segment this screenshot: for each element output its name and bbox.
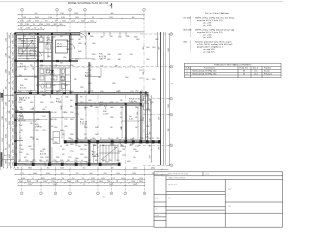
- svg-text:900: 900: [102, 145, 105, 147]
- svg-text:5400: 5400: [95, 107, 99, 109]
- svg-text:3600: 3600: [64, 85, 68, 87]
- svg-text:1050: 1050: [146, 47, 150, 49]
- svg-text:2490: 2490: [19, 125, 23, 127]
- svg-text:Lb. Ar.: Lb. Ar.: [185, 67, 191, 70]
- svg-text:615: 615: [62, 149, 65, 151]
- svg-text:1200: 1200: [156, 138, 160, 140]
- svg-text:900: 900: [13, 143, 15, 146]
- svg-text:3600: 3600: [90, 36, 94, 38]
- bottom dimension line row 5: [17, 184, 145, 186]
- svg-text:A: 8.20: A: 8.20: [40, 152, 46, 155]
- svg-text:1200: 1200: [6, 53, 8, 57]
- svg-text:POMB QUOTY KEYO HAMUOLJ ZHUKHE: POMB QUOTY KEYO HAMUOLJ ZHUKHETO: [214, 63, 252, 66]
- svg-text:1180: 1180: [36, 85, 39, 87]
- svg-text:90: 90: [108, 138, 110, 140]
- svg-text:90: 90: [81, 160, 83, 162]
- svg-text:17: 17: [32, 178, 34, 180]
- svg-text:1140: 1140: [143, 72, 145, 75]
- bathroom fixtures: [40, 69, 66, 89]
- grid leader line 7: [143, 11, 145, 34]
- svg-text:1050: 1050: [80, 102, 84, 104]
- svg-text:Pozty, mm: Pozty, mm: [240, 67, 249, 70]
- small fixtures upper-left: [19, 38, 51, 56]
- svg-text:5400: 5400: [30, 102, 34, 104]
- staircase treads (top-left): [18, 38, 36, 59]
- svg-text:17: 17: [92, 150, 94, 152]
- dark door blobs: [29, 60, 66, 94]
- svg-text:KO 4200: KO 4200: [184, 17, 191, 19]
- svg-text:1180: 1180: [100, 37, 103, 39]
- svg-text:T•: T•: [171, 84, 173, 86]
- svg-text:140: 140: [98, 77, 101, 79]
- stair direction arrow: [20, 40, 33, 57]
- interior wall vertical C: [69, 33, 71, 62]
- svg-text:2490: 2490: [118, 54, 122, 56]
- svg-text:1980: 1980: [126, 36, 130, 38]
- svg-text:1140: 1140: [6, 118, 8, 122]
- svg-text:720: 720: [6, 87, 8, 90]
- svg-text:140: 140: [54, 112, 57, 114]
- title block small texts: [156, 173, 233, 218]
- right vertical dimension line: [168, 33, 170, 166]
- svg-text:1775: 1775: [111, 178, 115, 180]
- svg-text:2: 2: [57, 9, 58, 11]
- grid leader line 4 (bottom): [69, 167, 71, 192]
- svg-text:90: 90: [13, 47, 15, 49]
- svg-text:17: 17: [100, 138, 102, 140]
- svg-text:615: 615: [46, 160, 49, 162]
- svg-text:1980: 1980: [42, 149, 46, 151]
- svg-text:5400: 5400: [56, 91, 60, 93]
- svg-text:1: 1: [187, 71, 188, 73]
- svg-text:615: 615: [80, 97, 83, 99]
- svg-text:250: 250: [120, 100, 123, 102]
- svg-text:17: 17: [22, 51, 24, 53]
- svg-text:2400: 2400: [13, 114, 15, 118]
- svg-text:2400: 2400: [13, 100, 15, 104]
- svg-text:250: 250: [104, 173, 107, 175]
- svg-text:880: 880: [150, 109, 152, 112]
- top wall fill: [15, 33, 80, 34]
- svg-text:90: 90: [6, 148, 8, 150]
- svg-text:3600: 3600: [19, 181, 23, 183]
- svg-text:1200: 1200: [50, 139, 54, 141]
- svg-text:4240: 4240: [61, 17, 65, 19]
- svg-text:1775: 1775: [122, 155, 126, 157]
- svg-text:4240: 4240: [9, 154, 11, 158]
- right wall strip dark line: [160, 32, 162, 165]
- svg-text:720: 720: [55, 21, 58, 23]
- svg-text:1200: 1200: [129, 145, 133, 147]
- svg-text:36: 36: [243, 73, 245, 75]
- svg-text:6: 6: [111, 193, 112, 195]
- svg-text:4240: 4240: [28, 91, 32, 93]
- left page scan edge: [0, 92, 2, 170]
- grid bubble F (right): [170, 164, 173, 167]
- svg-text:365: 365: [132, 138, 135, 140]
- outer wall left: [14, 33, 16, 165]
- svg-text:5400: 5400: [28, 146, 32, 148]
- svg-text:1180: 1180: [25, 24, 29, 26]
- svg-text:1775: 1775: [64, 119, 68, 121]
- svg-text:1140: 1140: [42, 109, 45, 111]
- svg-text:90: 90: [9, 82, 11, 84]
- svg-text:12,4: 12,4: [254, 73, 258, 75]
- svg-text:4: 4: [85, 9, 86, 11]
- grid leader line 3: [69, 11, 71, 34]
- outer wall right of main block: [140, 92, 142, 143]
- svg-text:2285: 2285: [28, 184, 32, 186]
- svg-text:MODEL W DASWAL PLAN NO 1:50: MODEL W DASWAL PLAN NO 1:50: [68, 2, 109, 5]
- svg-text:2760: 2760: [118, 37, 122, 39]
- section marker left A: [0, 93, 14, 98]
- grid bubble 8 (bottom): [143, 192, 146, 195]
- svg-text:2490: 2490: [70, 134, 74, 136]
- svg-text:2490: 2490: [159, 146, 161, 150]
- svg-text:5400: 5400: [116, 91, 120, 93]
- svg-text:2760: 2760: [52, 85, 56, 87]
- svg-text:1140: 1140: [107, 54, 110, 56]
- top dimension line row 3: [17, 21, 96, 23]
- svg-text:140: 140: [150, 145, 152, 148]
- door swing box lower-left: [53, 132, 60, 144]
- svg-text:140: 140: [111, 168, 114, 170]
- svg-text:BK2: BK2: [184, 41, 188, 43]
- svg-text:1775: 1775: [36, 126, 40, 128]
- svg-text:± 0.00: ± 0.00: [103, 113, 108, 115]
- svg-text:1: 1: [22, 9, 23, 11]
- svg-text:365: 365: [75, 145, 78, 147]
- svg-text:250: 250: [35, 13, 38, 15]
- svg-text:900: 900: [33, 67, 35, 70]
- svg-text:2490: 2490: [18, 102, 22, 104]
- page border top: [0, 0, 283, 2]
- svg-text:880: 880: [85, 42, 87, 45]
- partial line upper-right room: [85, 76, 101, 78]
- svg-text:3: 3: [55, 193, 56, 195]
- svg-text:1180: 1180: [27, 21, 31, 23]
- svg-text:4240: 4240: [130, 102, 134, 104]
- svg-text:1140: 1140: [65, 97, 68, 99]
- svg-text:1140: 1140: [6, 38, 8, 42]
- svg-text:1200: 1200: [122, 149, 126, 151]
- partition room2 y52: [38, 51, 52, 53]
- left dimension line col 1: [2, 89, 4, 168]
- svg-text:365: 365: [146, 79, 149, 81]
- svg-text:1050: 1050: [58, 102, 62, 104]
- steel schedule table: [184, 63, 281, 77]
- svg-text:1510: 1510: [62, 112, 66, 114]
- partition room2 y42: [38, 42, 52, 44]
- svg-text:250: 250: [84, 91, 87, 93]
- svg-text:2285: 2285: [91, 178, 95, 180]
- svg-text:4240: 4240: [150, 118, 152, 122]
- svg-text:1050: 1050: [9, 144, 11, 148]
- svg-text:365: 365: [135, 117, 138, 119]
- svg-text:1140: 1140: [9, 35, 11, 39]
- svg-text:1200: 1200: [116, 160, 120, 162]
- svg-text:2400: 2400: [131, 181, 135, 183]
- section marker left B: [0, 152, 14, 167]
- svg-text:5400: 5400: [19, 75, 23, 77]
- svg-text:Tyta, zl: Tyta, zl: [253, 67, 259, 70]
- svg-text:2400: 2400: [80, 142, 84, 144]
- svg-text:2760: 2760: [70, 112, 74, 114]
- svg-text:880: 880: [111, 13, 114, 15]
- svg-text:900: 900: [9, 56, 11, 59]
- partition y84 bath: [39, 84, 70, 86]
- svg-text:365: 365: [67, 160, 70, 162]
- svg-text:140: 140: [110, 127, 113, 129]
- svg-text:5400: 5400: [70, 144, 74, 146]
- svg-text:90: 90: [34, 28, 36, 30]
- grid row line D: [143, 114, 170, 116]
- svg-text:1510: 1510: [46, 24, 50, 26]
- interior dim chain room P06: [17, 113, 75, 162]
- interior dimension lines: [17, 38, 140, 162]
- partial vertical upper-right room: [100, 68, 102, 77]
- svg-text:1775: 1775: [20, 173, 24, 175]
- svg-text:3840: 3840: [13, 128, 15, 132]
- svg-text:1980: 1980: [140, 106, 144, 108]
- svg-text:250: 250: [82, 178, 85, 180]
- svg-text:1775: 1775: [30, 37, 34, 39]
- svg-text:2285: 2285: [155, 39, 159, 41]
- svg-text:90: 90: [62, 178, 64, 180]
- svg-text:140: 140: [84, 181, 87, 183]
- svg-text:1980: 1980: [24, 79, 28, 81]
- svg-text:1200: 1200: [63, 57, 67, 59]
- grid bubble 5 (bottom): [97, 192, 100, 195]
- grid bubble 7 (bottom): [124, 192, 127, 195]
- svg-text:250: 250: [146, 109, 149, 111]
- svg-text:4: 4: [70, 193, 71, 195]
- svg-text:1980: 1980: [19, 107, 23, 109]
- door opening marks: [14, 32, 144, 167]
- svg-text:1200: 1200: [60, 13, 64, 15]
- lower-right bearing wall fill: [65, 141, 160, 142]
- svg-text:17: 17: [60, 181, 62, 183]
- window openings top wall: [30, 33, 70, 35]
- svg-text:4240: 4240: [39, 24, 43, 26]
- outer wall top hatch: [16, 33, 80, 35]
- svg-text:90: 90: [61, 76, 63, 78]
- svg-text:17: 17: [83, 184, 85, 186]
- grid row line A: [140, 33, 170, 35]
- top dimension line row 2: [17, 17, 144, 19]
- svg-text:2.30: 2.30: [129, 118, 133, 120]
- svg-text:2285: 2285: [91, 181, 95, 183]
- svg-text:1510: 1510: [13, 135, 15, 139]
- svg-text:2490: 2490: [133, 184, 137, 186]
- grid row line C: [143, 98, 170, 100]
- svg-text:720: 720: [124, 138, 127, 140]
- staircase treads (lower-middle): [99, 145, 120, 163]
- svg-text:5400: 5400: [13, 69, 15, 73]
- closet inner line: [56, 46, 68, 48]
- svg-text:Pojednia: Pojednia: [264, 68, 271, 70]
- grid bubble 7 (top): [143, 8, 146, 11]
- svg-text:1775: 1775: [111, 145, 115, 147]
- svg-text:720: 720: [20, 24, 23, 26]
- svg-text:1140: 1140: [148, 138, 151, 140]
- svg-text:1050: 1050: [13, 121, 15, 125]
- svg-text:2490: 2490: [84, 145, 88, 147]
- svg-text:3840: 3840: [6, 69, 8, 73]
- svg-text:900: 900: [90, 173, 93, 175]
- svg-text:1140: 1140: [143, 117, 145, 120]
- svg-text:2490: 2490: [146, 126, 150, 128]
- svg-text:1775: 1775: [42, 130, 46, 132]
- svg-text:2490: 2490: [159, 116, 161, 120]
- svg-text:5400: 5400: [40, 102, 44, 104]
- svg-text:1180: 1180: [75, 181, 78, 183]
- svg-text:1980: 1980: [88, 65, 92, 67]
- left dimension line col 2: [6, 32, 8, 168]
- svg-text:880: 880: [108, 181, 111, 183]
- svg-text:5400: 5400: [95, 134, 99, 136]
- svg-text:2760: 2760: [80, 87, 84, 89]
- svg-text:365: 365: [60, 63, 63, 65]
- svg-text:1510: 1510: [40, 91, 44, 93]
- svg-text:2760: 2760: [13, 63, 15, 67]
- svg-text:3840: 3840: [60, 160, 64, 162]
- svg-text:880: 880: [54, 24, 57, 26]
- svg-text:1980: 1980: [47, 56, 51, 58]
- svg-text:1180: 1180: [2, 116, 4, 120]
- svg-text:615: 615: [26, 154, 29, 156]
- svg-text:900: 900: [168, 129, 170, 132]
- svg-text:2400: 2400: [42, 95, 46, 97]
- svg-text:2285: 2285: [110, 102, 114, 104]
- grid bubble 4 (bottom): [69, 192, 72, 195]
- svg-text:1980: 1980: [74, 13, 78, 15]
- grid row line E: [143, 144, 170, 146]
- interior wall vertical E: [75, 95, 77, 142]
- svg-text:1980: 1980: [2, 98, 4, 102]
- svg-text:Szczvk: Szczvk: [264, 71, 270, 73]
- svg-text:90: 90: [132, 178, 134, 180]
- page border bottom left: [0, 226, 154, 228]
- svg-text:140: 140: [78, 39, 81, 41]
- svg-text:1180: 1180: [68, 138, 71, 140]
- svg-text:365: 365: [116, 138, 119, 140]
- right strip inner line bottom: [150, 99, 152, 143]
- grid bubble 3 (top): [69, 8, 72, 11]
- svg-text:880: 880: [90, 106, 93, 108]
- svg-text:720: 720: [76, 173, 79, 175]
- shaft boxes: [144, 96, 149, 110]
- svg-text:615: 615: [100, 59, 103, 61]
- svg-text:90: 90: [20, 28, 22, 30]
- svg-text:Pohutvcw: Pohutvcw: [264, 72, 272, 75]
- rotated dimension texts: [33, 41, 161, 152]
- svg-text:365: 365: [66, 145, 69, 147]
- bottom wall fill: [15, 163, 120, 166]
- svg-text:3600: 3600: [70, 39, 74, 41]
- svg-text:1140: 1140: [90, 91, 93, 93]
- svg-text:2760: 2760: [20, 21, 24, 23]
- svg-text:2285: 2285: [110, 117, 114, 119]
- svg-text:3: 3: [70, 9, 71, 11]
- svg-text:1180: 1180: [19, 99, 22, 101]
- svg-text:1775: 1775: [100, 66, 104, 68]
- grid leader line 2: [56, 11, 58, 34]
- svg-text:900: 900: [19, 138, 22, 140]
- interior wall vertical A: [37, 36, 39, 94]
- svg-text:A: 7.45: A: 7.45: [20, 65, 26, 68]
- svg-text:90: 90: [40, 28, 42, 30]
- svg-text:5400: 5400: [132, 173, 136, 175]
- grid bubble 1 (bottom): [20, 192, 23, 195]
- svg-text:3600: 3600: [67, 181, 71, 183]
- svg-text:900: 900: [70, 100, 73, 102]
- svg-text:880: 880: [60, 24, 63, 26]
- lower-right bearing wall horizontal: [65, 140, 160, 142]
- left dimension line col 3: [9, 32, 11, 168]
- svg-text:17: 17: [13, 76, 15, 78]
- svg-text:A: 6.45: A: 6.45: [20, 86, 26, 89]
- upper-right thin edge line: [80, 30, 145, 32]
- svg-text:1200: 1200: [19, 145, 23, 147]
- grid bubble B (right): [170, 65, 173, 68]
- svg-text:880: 880: [115, 66, 118, 68]
- svg-text:1980: 1980: [18, 39, 22, 41]
- svg-text:365: 365: [150, 132, 152, 135]
- svg-text:F: F: [171, 165, 172, 167]
- svg-text:2400: 2400: [168, 48, 170, 52]
- svg-text:880: 880: [118, 59, 121, 61]
- svg-text:5400: 5400: [43, 181, 47, 183]
- svg-text:900: 900: [78, 146, 81, 148]
- svg-text:615: 615: [36, 181, 39, 183]
- svg-text:90: 90: [60, 146, 62, 148]
- svg-text:3600: 3600: [81, 21, 85, 23]
- svg-text:3840: 3840: [134, 37, 138, 39]
- svg-text:615: 615: [62, 154, 65, 156]
- svg-text:2760: 2760: [70, 91, 74, 93]
- bottom dimension line row 3: [17, 178, 145, 180]
- svg-text:2285: 2285: [51, 181, 55, 183]
- svg-text:1: 1: [21, 193, 22, 195]
- svg-text:1140: 1140: [19, 152, 22, 154]
- svg-text:720: 720: [13, 88, 15, 91]
- svg-text:1050: 1050: [84, 138, 88, 140]
- svg-text:1980: 1980: [66, 41, 70, 43]
- svg-text:..... + .....: ..... + .....: [149, 168, 156, 170]
- svg-text:2: 2: [187, 73, 188, 75]
- svg-text:2285: 2285: [13, 149, 15, 153]
- annotations above bottom wall: [18, 138, 160, 163]
- svg-text:2760: 2760: [25, 160, 29, 162]
- svg-text:3600: 3600: [13, 40, 15, 44]
- svg-text:j.w. +0,85: j.w. +0,85: [202, 37, 212, 39]
- svg-text:1980: 1980: [40, 65, 44, 67]
- grid bubble 2 (bottom): [40, 192, 43, 195]
- svg-text:2400: 2400: [125, 77, 129, 79]
- svg-text:2760: 2760: [146, 95, 150, 97]
- svg-text:1775: 1775: [68, 157, 72, 159]
- interior wall vertical C lower: [69, 62, 71, 92]
- svg-text:365: 365: [132, 17, 135, 19]
- grid bubble 3 (bottom): [54, 192, 57, 195]
- svg-text:140: 140: [62, 134, 65, 136]
- top dimension line row 4: [17, 24, 65, 26]
- svg-text:4240: 4240: [6, 134, 8, 138]
- svg-text:Tkbwhcj bmwkj, 70 NPfyj 14/w: Tkbwhcj bmwkj, 70 NPfyj 14/w: [192, 71, 217, 73]
- svg-text:1050: 1050: [168, 104, 170, 108]
- partition wall small room 2: [43, 36, 45, 61]
